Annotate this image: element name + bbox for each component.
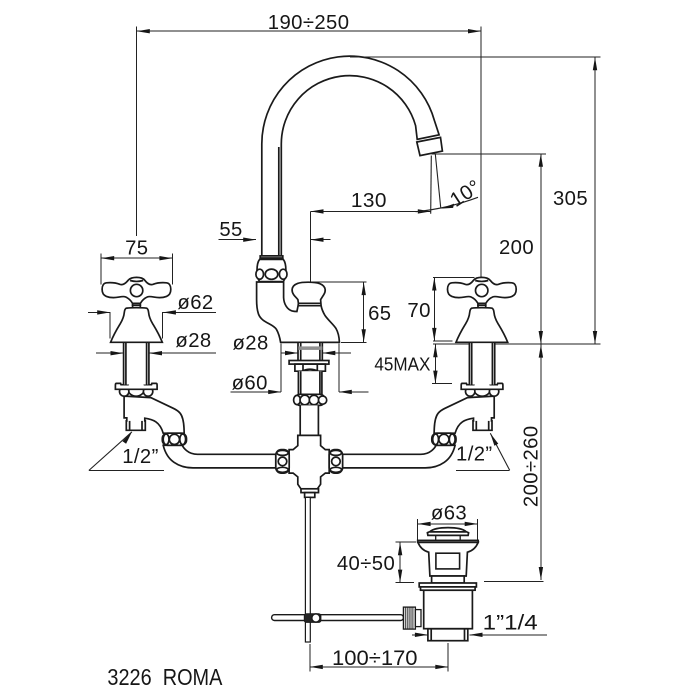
svg-text:ø28: ø28 xyxy=(175,330,211,352)
svg-text:70: 70 xyxy=(407,300,431,322)
svg-text:200: 200 xyxy=(499,237,534,259)
svg-text:ø28: ø28 xyxy=(233,333,269,355)
svg-text:200÷260: 200÷260 xyxy=(520,425,542,507)
svg-text:1/2”: 1/2” xyxy=(456,444,493,466)
svg-text:55: 55 xyxy=(219,219,242,241)
svg-text:305: 305 xyxy=(553,188,588,210)
svg-text:1”1/4: 1”1/4 xyxy=(483,612,538,635)
svg-text:1/2”: 1/2” xyxy=(122,446,159,468)
svg-text:100÷170: 100÷170 xyxy=(332,646,418,670)
svg-text:130: 130 xyxy=(351,190,387,212)
svg-text:3226 ROMA: 3226 ROMA xyxy=(107,664,222,690)
svg-text:65: 65 xyxy=(368,303,391,325)
svg-text:45MAX: 45MAX xyxy=(374,354,430,374)
svg-text:ø62: ø62 xyxy=(177,292,213,314)
svg-text:190÷250: 190÷250 xyxy=(268,12,350,34)
svg-text:ø60: ø60 xyxy=(232,373,268,395)
svg-text:ø63: ø63 xyxy=(431,503,467,525)
svg-text:75: 75 xyxy=(125,237,148,259)
svg-text:40÷50: 40÷50 xyxy=(337,553,395,575)
